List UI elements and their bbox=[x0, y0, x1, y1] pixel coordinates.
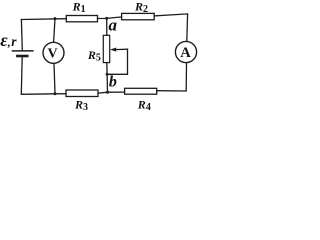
wire: R2 to top-right corner down to ammeter bbox=[154, 14, 187, 42]
wire: R3 to bottom-left corner up to battery bbox=[21, 56, 66, 94]
rheostat R5 (vertical box) bbox=[103, 35, 109, 62]
resistor R3 bbox=[66, 90, 98, 97]
svg-text:a: a bbox=[109, 15, 118, 34]
wire: battery to top-left corner bbox=[20, 20, 23, 51]
wire: R4 to node b junction to R3 bbox=[98, 92, 125, 93]
wiper arrow of R5 bbox=[110, 48, 116, 52]
wire: node b down to bottom junction bbox=[106, 74, 108, 92]
voltmeter V bbox=[43, 42, 64, 63]
svg-text:R2: R2 bbox=[134, 0, 148, 15]
resistor R4 bbox=[125, 88, 157, 94]
wire: node a down to R5 bbox=[106, 18, 108, 35]
ammeter A bbox=[175, 41, 196, 62]
battery: short thick plate bbox=[17, 55, 27, 58]
resistor R1 bbox=[66, 16, 97, 22]
svg-text:R5: R5 bbox=[87, 48, 101, 64]
resistor R2 bbox=[122, 13, 155, 19]
wire: voltmeter branch top bbox=[54, 19, 55, 43]
svg-text:R3: R3 bbox=[74, 97, 88, 113]
wire: voltmeter branch bottom bbox=[54, 63, 55, 94]
battery: long thin plate bbox=[13, 50, 33, 52]
svg-text:R1: R1 bbox=[72, 0, 86, 15]
junction: node b wiper return bbox=[106, 73, 109, 76]
wire: R1 to node a to R2 bbox=[98, 17, 122, 19]
svg-text:A: A bbox=[180, 45, 191, 61]
wire: R5 bottom to node b bbox=[106, 63, 108, 75]
wire: ammeter to bottom-right corner to R4 bbox=[157, 63, 187, 91]
svg-text:V: V bbox=[48, 46, 58, 61]
wire: wiper return loop to node b bbox=[107, 49, 127, 74]
svg-text:b: b bbox=[109, 74, 117, 91]
wire: top-left corner to R1 bbox=[21, 18, 66, 21]
svg-text:ε,r: ε,r bbox=[0, 30, 17, 50]
junction: top wire / node a bbox=[105, 17, 108, 20]
junction: bottom wire / voltmeter bbox=[54, 92, 57, 95]
svg-text:R4: R4 bbox=[137, 97, 151, 113]
junction: bottom wire / R5 branch bbox=[106, 91, 109, 94]
junction: top wire / voltmeter bbox=[54, 17, 57, 20]
